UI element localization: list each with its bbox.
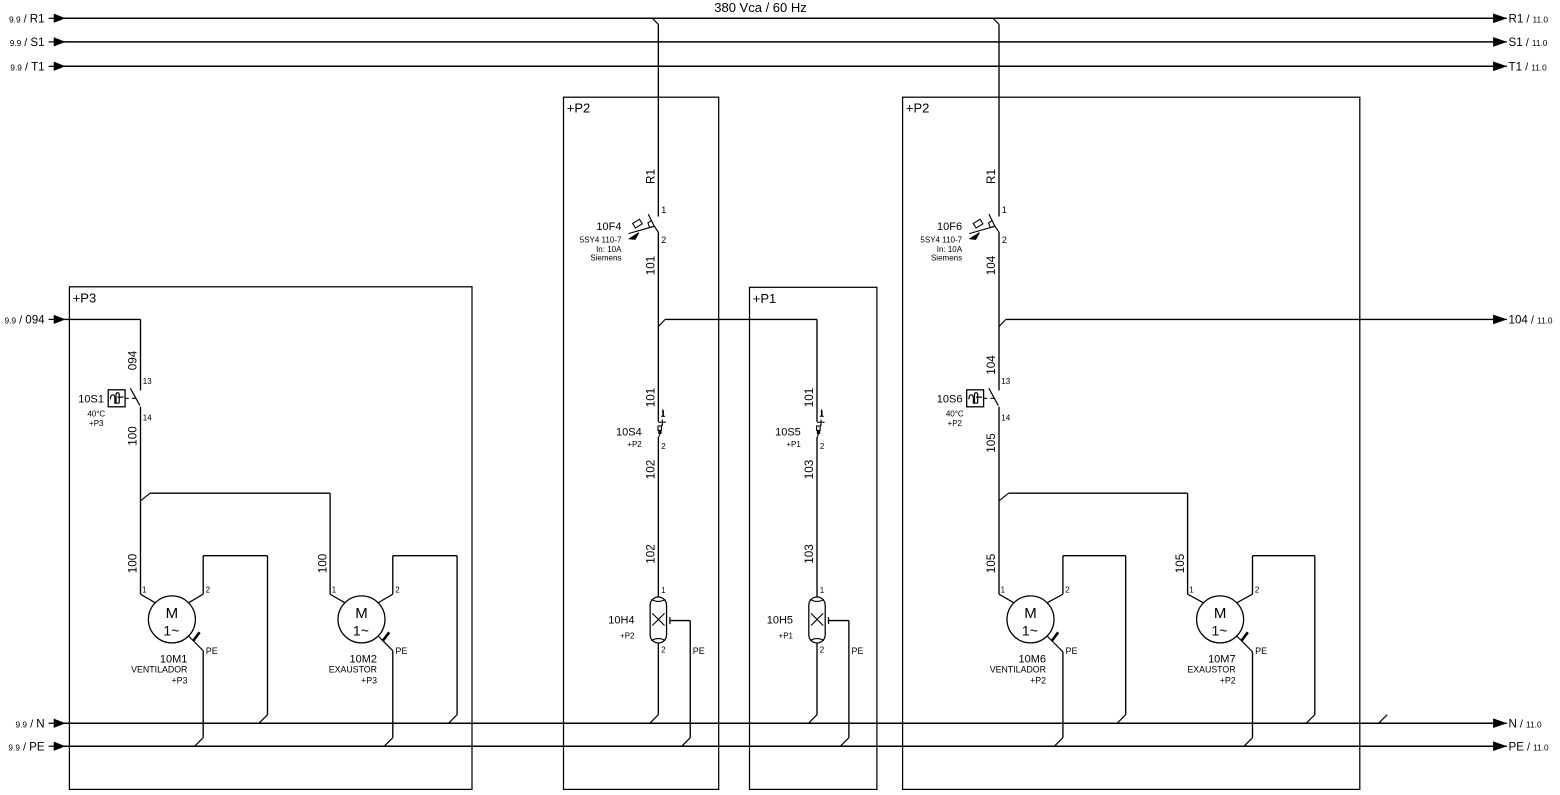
svg-text:5SY4 110-7: 5SY4 110-7 (580, 236, 622, 245)
svg-text:10S6: 10S6 (937, 393, 963, 405)
title: 380 Vca / 60 Hz supply label (714, 0, 807, 15)
device tag label 10M6 / VENTILADOR / +P2 (990, 653, 1046, 685)
pin 14 label of 10S1 (143, 413, 152, 422)
wire: net 105 from 10S6 pin14 down (998, 407, 1000, 594)
wire: 10M7 PE lead to bus PE (1237, 636, 1253, 746)
svg-text:+P3: +P3 (361, 676, 377, 686)
svg-text:R1 / 11.0: R1 / 11.0 (1509, 13, 1549, 26)
wire: 10M6 pin1 lead (999, 594, 1014, 603)
svg-text:101: 101 (803, 388, 816, 408)
svg-text:100: 100 (316, 553, 329, 573)
thermostat switch 10S1 40C +P3 (108, 388, 140, 407)
latching switch 10S5 +P1 (817, 409, 825, 437)
svg-text:10S5: 10S5 (775, 427, 801, 439)
svg-text:S1 / 11.0: S1 / 11.0 (1509, 36, 1548, 49)
wire: 10H4 PE drop to bus PE (682, 621, 691, 747)
pin 1 label of 10M1 (142, 585, 147, 594)
svg-text:+P2: +P2 (567, 101, 591, 116)
svg-text:1~: 1~ (1022, 622, 1038, 638)
PE label at 10H4 (693, 646, 705, 656)
svg-text:VENTILADOR: VENTILADOR (990, 664, 1046, 674)
svg-text:10H5: 10H5 (767, 615, 793, 627)
wire: 10M2 drop to bus N with junction jog (449, 556, 458, 724)
svg-text:103: 103 (803, 544, 816, 564)
svg-text:T1 / 11.0: T1 / 11.0 (1509, 61, 1548, 74)
net S1 destination arrow S1/11.0 (1494, 36, 1548, 49)
wire label 101 (above 10S5) (803, 388, 816, 408)
pin 13 label of 10S6 (1001, 377, 1010, 386)
PE label at 10M6 (1066, 646, 1078, 656)
wire: 10M2 PE lead to bus PE (378, 636, 393, 746)
svg-text:1: 1 (661, 409, 666, 418)
pin 2 label of 10F6 (1002, 235, 1007, 245)
wire label 102 (above 10H4) (645, 544, 658, 564)
pin 2 label of 10M6 (1065, 585, 1070, 594)
svg-text:105: 105 (1174, 553, 1187, 573)
net PE source arrow 9.9/PE (8, 740, 64, 753)
orphan junction jog on bus N near right edge (1379, 715, 1388, 723)
wire: 10M7 pin1 lead (1188, 594, 1204, 603)
svg-text:100: 100 (127, 553, 140, 573)
svg-text:+P3: +P3 (89, 419, 104, 428)
wire: 10M1 drop to bus N with junction jog (259, 556, 268, 724)
pin 2 label of 10S4 (661, 442, 666, 451)
enclosure box +P1 at x=749.5 (750, 287, 877, 789)
svg-text:094: 094 (127, 350, 140, 370)
wire label 105 (below 10S6) (985, 433, 998, 453)
svg-text:In: 10A: In: 10A (596, 245, 622, 254)
wire: net 094 horizontal into +P3 (64, 319, 141, 390)
svg-text:R1: R1 (645, 169, 658, 184)
svg-text:102: 102 (645, 460, 658, 480)
device tag label 10F4 / 5SY4 110-7 / In: 10A / Siemens (580, 221, 622, 263)
motor 10M7 EXAUSTOR +P2 (1197, 596, 1244, 643)
device tag label 10F6 / 5SY4 110-7 / In: 10A / Siemens (920, 221, 962, 263)
PE label at 10H5 (851, 646, 863, 656)
svg-text:PE: PE (206, 646, 218, 656)
svg-text:40°C: 40°C (946, 410, 964, 419)
svg-text:PE: PE (1066, 646, 1078, 656)
device tag label 10S6 / 40C / +P2 (937, 393, 964, 427)
wire: net 104 horizontal to page 11.0 (1006, 318, 1494, 320)
wire label 102 (below 10S4) (645, 460, 658, 480)
PE terminal of 10M1 (bold tick) (193, 632, 199, 641)
wire: 10M1 PE lead to bus PE (189, 636, 204, 746)
junction: net 101 branch to +P1 (658, 319, 817, 421)
pin 1 label of 10H5 (820, 586, 825, 595)
svg-text:9.9 / R1: 9.9 / R1 (9, 13, 45, 26)
junction: net 104 branch to page 11.0 (999, 319, 1006, 326)
net S1 source arrow 9.9/S1 (10, 36, 65, 49)
device tag label 10M7 / EXAUSTOR / +P2 (1187, 653, 1235, 685)
svg-text:5SY4 110-7: 5SY4 110-7 (920, 236, 962, 245)
wire: net 104 from 10F6 pin2 down to 10S6 (998, 232, 1000, 390)
svg-text:M: M (166, 605, 179, 622)
svg-text:+P2: +P2 (948, 419, 963, 428)
svg-text:2: 2 (661, 442, 666, 451)
svg-text:2: 2 (820, 646, 825, 655)
svg-text:EXAUSTOR: EXAUSTOR (1187, 664, 1235, 674)
PE label at 10M7 (1255, 646, 1267, 656)
enclosure box +P3 at x=69.4 (69, 287, 472, 790)
svg-text:10S4: 10S4 (616, 427, 642, 439)
signal lamp 10H4 +P2 (650, 597, 690, 643)
enclosure box +P2 at x=563.5 (564, 97, 719, 789)
wire: 10M1 pin1 lead (141, 594, 156, 603)
svg-text:2: 2 (1065, 585, 1070, 594)
svg-text:+P2: +P2 (1030, 676, 1046, 686)
svg-text:380 Vca / 60 Hz: 380 Vca / 60 Hz (714, 0, 807, 15)
net PE destination arrow PE/11.0 (1494, 740, 1549, 753)
device tag label 10H4 / +P2 (608, 615, 635, 641)
svg-text:M: M (1214, 605, 1227, 622)
svg-text:9.9 / 094: 9.9 / 094 (5, 314, 46, 327)
PE label at 10M2 (395, 646, 407, 656)
wire: net 101 from 10F4 pin2 down to 10S4 (657, 232, 659, 422)
wire: net 103 from 10S5 pin2 to lamp 10H5 (816, 437, 818, 597)
wire label 100 (at 10M1) (127, 553, 140, 573)
pin 2 label of 10H5 (820, 646, 825, 655)
wire: 10H5 pin2 down to bus N (809, 643, 818, 723)
motor 10M1 VENTILADOR +P3 (148, 596, 195, 643)
svg-text:9.9 / PE: 9.9 / PE (8, 740, 44, 753)
wire: 10M1 pin2 lead up and over to N drop (189, 556, 268, 603)
svg-text:9.9 / N: 9.9 / N (16, 717, 45, 730)
svg-text:105: 105 (985, 553, 998, 573)
svg-text:1: 1 (1002, 205, 1007, 215)
svg-text:PE: PE (693, 646, 705, 656)
svg-text:+P1: +P1 (786, 440, 801, 449)
wire label R1 (middle column) (645, 169, 658, 184)
svg-text:2: 2 (661, 646, 666, 655)
wire label 100 (upper) (127, 426, 140, 446)
svg-text:1: 1 (142, 585, 147, 594)
svg-text:+P1: +P1 (779, 631, 794, 640)
net 104 destination arrow 104/11.0 (1494, 314, 1553, 327)
wire label 100 (at 10M2) (316, 553, 329, 573)
wire label 101 (below 10F4) (645, 256, 658, 276)
svg-text:N / 11.0: N / 11.0 (1509, 717, 1542, 730)
pin 1 label of 10S4 (661, 409, 666, 418)
svg-text:In: 10A: In: 10A (937, 245, 963, 254)
circuit breaker 10F4 5SY4 110-7 (629, 214, 659, 239)
pin 2 label of 10M1 (206, 585, 211, 594)
wire: net R1 drop to 10F6 (998, 24, 1000, 216)
pin 2 label of 10S5 (820, 442, 825, 451)
wire label 104 (above 10S6) (985, 355, 998, 375)
svg-text:2: 2 (661, 235, 666, 245)
svg-text:+P2: +P2 (620, 631, 635, 640)
svg-text:13: 13 (1001, 377, 1010, 386)
pin 1 label of 10S5 (820, 409, 825, 418)
svg-text:13: 13 (143, 377, 152, 386)
svg-text:10H4: 10H4 (608, 615, 634, 627)
pin 2 label of 10M2 (395, 585, 400, 594)
wire: 10M6 pin2 lead up and over to N drop (1047, 556, 1126, 603)
pin 1 label of 10M6 (1001, 585, 1006, 594)
wire: net R1 drop to 10F4 (657, 24, 659, 216)
svg-text:+P2: +P2 (1220, 676, 1236, 686)
svg-text:101: 101 (645, 256, 658, 276)
wire: phase bus R1 (64, 17, 1495, 19)
wire: 10M6 drop to bus N with junction jog (1117, 556, 1126, 724)
svg-text:1: 1 (661, 205, 666, 215)
svg-text:EXAUSTOR: EXAUSTOR (329, 664, 377, 674)
device tag label 10M2 / EXAUSTOR / +P3 (329, 653, 377, 685)
pin 1 label of 10F4 (661, 205, 666, 215)
svg-text:2: 2 (1255, 585, 1260, 594)
svg-text:40°C: 40°C (87, 410, 105, 419)
svg-text:2: 2 (206, 585, 211, 594)
wire: bus N (64, 722, 1495, 724)
svg-text:Siemens: Siemens (590, 254, 621, 263)
svg-text:Siemens: Siemens (931, 254, 962, 263)
svg-text:1: 1 (820, 586, 825, 595)
signal lamp 10H5 +P1 (809, 597, 849, 643)
wire label 094 (127, 350, 140, 370)
latching switch 10S4 +P2 (658, 409, 666, 437)
svg-text:103: 103 (803, 460, 816, 480)
net N source arrow 9.9/N (16, 717, 65, 730)
svg-text:PE: PE (1255, 646, 1267, 656)
wire label R1 (right column) (985, 169, 998, 184)
svg-text:1~: 1~ (1212, 622, 1228, 638)
junction: net 100 branch to 10M2 (141, 493, 331, 594)
wire label 104 (below 10F6) (985, 255, 998, 275)
svg-text:2: 2 (395, 585, 400, 594)
wire: 10M2 pin2 lead up and over to N drop (378, 556, 457, 603)
svg-text:+P2: +P2 (906, 101, 930, 116)
pin 14 label of 10S6 (1001, 413, 1010, 422)
svg-text:100: 100 (127, 426, 140, 446)
net N destination arrow N/11.0 (1494, 717, 1542, 730)
wire: 10H5 PE drop to bus PE (840, 621, 849, 747)
net R1 destination arrow R1/11.0 (1494, 13, 1549, 26)
svg-text:1~: 1~ (353, 622, 369, 638)
device tag label 10H5 / +P1 (767, 615, 794, 641)
net T1 source arrow 9.9/T1 (10, 61, 64, 74)
svg-text:105: 105 (985, 433, 998, 453)
wire: 10M2 pin1 lead (330, 594, 345, 603)
svg-text:101: 101 (645, 388, 658, 408)
svg-text:1: 1 (820, 409, 825, 418)
svg-text:VENTILADOR: VENTILADOR (131, 664, 187, 674)
thermostat switch 10S6 40C +P2 (967, 388, 999, 407)
pin 1 label of 10M2 (332, 585, 337, 594)
svg-text:10S1: 10S1 (78, 393, 104, 405)
wire: phase bus S1 (64, 41, 1495, 43)
svg-text:+P3: +P3 (73, 290, 97, 305)
motor 10M6 VENTILADOR +P2 (1007, 596, 1054, 643)
svg-text:9.9 / T1: 9.9 / T1 (10, 61, 44, 74)
svg-text:1: 1 (332, 585, 337, 594)
device tag label 10M1 / VENTILADOR / +P3 (131, 653, 187, 685)
motor 10M2 EXAUSTOR +P3 (338, 596, 385, 643)
svg-text:+P1: +P1 (753, 291, 777, 306)
net R1 source arrow 9.9/R1 (9, 13, 64, 26)
svg-text:10F4: 10F4 (596, 221, 621, 233)
svg-text:M: M (1024, 605, 1037, 622)
wire: 10M7 pin2 lead up and over to N drop (1237, 556, 1315, 603)
PE terminal of 10M2 (bold tick) (383, 632, 389, 641)
svg-text:2: 2 (1002, 235, 1007, 245)
svg-text:PE: PE (851, 646, 863, 656)
PE label at 10M1 (206, 646, 218, 656)
wire label 105 (at 10M6) (985, 553, 998, 573)
device tag label 10S1 / 40C / +P3 (78, 393, 105, 427)
wire: phase bus T1 (64, 65, 1495, 67)
svg-text:104: 104 (985, 355, 998, 375)
svg-text:14: 14 (1001, 413, 1010, 422)
svg-text:10F6: 10F6 (937, 221, 962, 233)
enclosure box +P2 at x=902.6 (903, 97, 1360, 789)
wire: bus PE (64, 745, 1495, 747)
pin 1 label of 10M7 (1189, 585, 1194, 594)
wire label 101 (above 10S4) (645, 388, 658, 408)
pin 13 label of 10S1 (143, 377, 152, 386)
pin 2 label of 10F4 (661, 235, 666, 245)
svg-text:104: 104 (985, 255, 998, 275)
svg-text:1: 1 (1189, 585, 1194, 594)
svg-text:9.9 / S1: 9.9 / S1 (10, 36, 45, 49)
wire: net 100 from 10S1 pin14 down (140, 407, 142, 594)
wire: 10H4 pin2 down to bus N (650, 643, 659, 723)
wire: 10M6 PE lead to bus PE (1047, 636, 1063, 746)
svg-text:PE / 11.0: PE / 11.0 (1509, 740, 1550, 753)
svg-text:+P2: +P2 (627, 440, 642, 449)
svg-text:1~: 1~ (163, 622, 179, 638)
svg-text:1: 1 (661, 586, 666, 595)
svg-text:+P3: +P3 (171, 676, 187, 686)
node: tap from bus R1 at x=999 (993, 18, 999, 24)
svg-text:R1: R1 (985, 169, 998, 184)
circuit breaker 10F6 5SY4 110-7 (969, 214, 999, 239)
pin 1 label of 10H4 (661, 586, 666, 595)
pin 1 label of 10F6 (1002, 205, 1007, 215)
svg-text:M: M (355, 605, 368, 622)
wire label 103 (below 10S5) (803, 460, 816, 480)
pin 2 label of 10M7 (1255, 585, 1260, 594)
PE terminal of 10M7 (bold tick) (1241, 632, 1247, 641)
svg-text:104 / 11.0: 104 / 11.0 (1509, 314, 1553, 327)
PE terminal of 10M6 (bold tick) (1052, 632, 1058, 641)
svg-text:1: 1 (1001, 585, 1006, 594)
svg-text:102: 102 (645, 544, 658, 564)
net 094 source arrow 9.9/094 (5, 314, 65, 327)
junction: net 105 branch to 10M7 (999, 493, 1188, 594)
pin 2 label of 10H4 (661, 646, 666, 655)
svg-text:2: 2 (820, 442, 825, 451)
device tag label 10S4 / +P2 (616, 427, 642, 449)
net T1 destination arrow T1/11.0 (1494, 61, 1548, 74)
wire label 105 (at 10M7) (1174, 553, 1187, 573)
wire label 103 (above 10H5) (803, 544, 816, 564)
wire: net 102 from 10S4 pin2 to lamp 10H4 (657, 437, 659, 597)
node: tap from bus R1 at x=658 (652, 18, 658, 24)
svg-text:14: 14 (143, 413, 152, 422)
device tag label 10S5 / +P1 (775, 427, 801, 449)
wire: 10M7 drop to bus N with junction jog (1306, 556, 1315, 724)
svg-text:PE: PE (395, 646, 407, 656)
